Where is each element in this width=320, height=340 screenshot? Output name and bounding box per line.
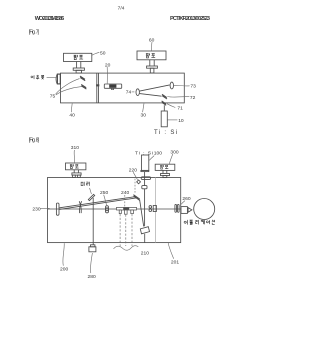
svg-text:30: 30 [141, 112, 147, 118]
svg-text:72: 72 [190, 95, 196, 101]
svg-text:201: 201 [171, 259, 179, 265]
svg-text:74: 74 [126, 89, 132, 95]
svg-text:10: 10 [178, 118, 184, 124]
svg-text:210: 210 [141, 250, 149, 256]
svg-text:Ti : Si: Ti : Si [154, 130, 177, 136]
svg-text:20: 20 [105, 62, 111, 68]
svg-text:240: 240 [121, 190, 129, 196]
svg-text:Ti : Si: Ti : Si [135, 151, 153, 157]
svg-text:300: 300 [170, 149, 178, 155]
svg-text:280: 280 [88, 274, 96, 280]
svg-text:60: 60 [149, 37, 155, 43]
svg-text:[Fig. 8]: [Fig. 8] [29, 137, 40, 143]
svg-text:230: 230 [32, 207, 40, 213]
svg-text:73: 73 [190, 84, 196, 90]
svg-text:71: 71 [177, 105, 183, 111]
svg-text:310: 310 [71, 145, 79, 151]
svg-text:PCT/KR2013/002523: PCT/KR2013/002523 [170, 16, 210, 22]
svg-text:260: 260 [182, 196, 190, 202]
svg-text:250: 250 [100, 190, 108, 196]
svg-text:75: 75 [50, 94, 56, 100]
svg-text:100: 100 [154, 151, 162, 157]
svg-text:40: 40 [69, 112, 75, 118]
svg-text:220: 220 [129, 168, 137, 174]
svg-text:200: 200 [60, 267, 68, 273]
svg-text:7/4: 7/4 [118, 5, 125, 11]
svg-text:WO 2013/141586: WO 2013/141586 [35, 16, 64, 22]
svg-text:[Fig. 7]: [Fig. 7] [29, 30, 40, 36]
svg-text:50: 50 [100, 50, 106, 56]
